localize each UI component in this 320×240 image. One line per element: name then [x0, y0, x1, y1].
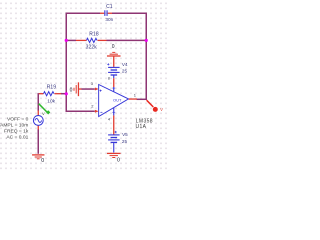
- wire output: [137, 98, 148, 100]
- svg-text:V: V: [160, 107, 163, 112]
- svg-text:AC = 0.01: AC = 0.01: [6, 134, 28, 140]
- svg-text:0: 0: [70, 87, 73, 93]
- voltage marker (red) at output node: [147, 100, 164, 112]
- wire R19 corner: [38, 93, 39, 95]
- voltage marker (green) at input node: [39, 104, 51, 116]
- wire source top: [37, 94, 39, 111]
- pin R19 left: [39, 93, 44, 95]
- junction at R19 right: [65, 92, 68, 95]
- wire pin3 to ground: [82, 88, 95, 90]
- junction at R18 right: [145, 39, 148, 42]
- wire R19 right to junction: [61, 93, 67, 95]
- ground 0 above V4 (flipped): [107, 52, 121, 56]
- pin C1 right: [108, 12, 112, 14]
- source V1 sine: [35, 118, 42, 122]
- svg-text:25: 25: [122, 68, 128, 73]
- battery V5 plates: [108, 135, 120, 143]
- pin V5 top: [113, 115, 115, 134]
- op-amp pin 2 arrowhead: [95, 110, 99, 113]
- ground 0 below V1: [32, 155, 44, 159]
- pin V1 bottom: [37, 125, 39, 130]
- wire R18 right: [107, 39, 148, 41]
- battery V5 bottom stem: [113, 142, 115, 152]
- svg-text:U1A: U1A: [136, 124, 147, 130]
- junction at R18 left: [65, 39, 68, 42]
- wire left feedback vertical: [65, 13, 67, 113]
- pin op-amp output: [128, 98, 137, 100]
- wire source bottom: [37, 129, 39, 154]
- svg-text:VAMPL = 10m: VAMPL = 10m: [0, 122, 28, 128]
- svg-text:0: 0: [41, 158, 44, 164]
- source V1 circle: [33, 116, 43, 126]
- op-amp V- pin tick: [112, 111, 115, 113]
- op-amp pin 3 arrowhead: [95, 88, 99, 91]
- pin V1 top: [37, 111, 39, 116]
- wire net segments: [38, 13, 148, 154]
- op-amp V+ pin stub: [113, 87, 115, 92]
- wire right vertical: [145, 13, 147, 101]
- wire R18 left: [66, 39, 77, 41]
- op-amp V+ pin tick: [112, 87, 115, 89]
- op-amp minus input mark: [100, 111, 102, 113]
- pin C1 left: [100, 12, 104, 14]
- pin V4 bottom: [113, 78, 115, 87]
- svg-text:30n: 30n: [105, 17, 113, 22]
- wire top feedback horizontal left: [66, 12, 101, 14]
- battery V4 plus mark: [107, 63, 109, 65]
- ground 0 below V5: [107, 153, 121, 157]
- pin R18 left: [76, 39, 87, 41]
- svg-text:25: 25: [122, 139, 128, 144]
- wire top feedback horizontal right: [112, 12, 147, 14]
- battery V4 plates: [108, 67, 120, 75]
- component pins (red): [38, 13, 137, 134]
- battery V5 plus mark: [115, 131, 117, 133]
- svg-text:FREQ = 1k: FREQ = 1k: [4, 128, 29, 134]
- svg-text:0: 0: [112, 44, 115, 50]
- source V1 attributes: [0, 116, 29, 140]
- svg-text:V: V: [42, 111, 45, 116]
- wire to op-amp pin 2: [66, 110, 95, 112]
- svg-text:322k: 322k: [86, 44, 98, 50]
- svg-text:8: 8: [108, 76, 110, 80]
- capacitor C1 plates: [105, 10, 107, 16]
- ground 0 at op-amp pin 3 (rotated): [74, 82, 78, 96]
- battery V4 bottom stub: [113, 75, 115, 78]
- resistor R19 zigzag: [44, 92, 54, 96]
- pin R19 right: [55, 93, 62, 95]
- svg-text:VOFF = 0: VOFF = 0: [7, 116, 29, 122]
- svg-text:R18: R18: [89, 31, 99, 37]
- pin R18 right: [98, 39, 107, 41]
- svg-text:10k: 10k: [47, 99, 55, 105]
- op-amp plus input mark: [100, 90, 102, 92]
- svg-text:V4: V4: [122, 62, 128, 67]
- op-amp V- pin stub: [113, 108, 115, 116]
- op-amp U1A triangle: [99, 85, 129, 117]
- svg-text:C1: C1: [106, 4, 113, 10]
- svg-text:0: 0: [117, 157, 120, 163]
- svg-text:V5: V5: [122, 132, 128, 137]
- pin ground-0 sideways stub: [79, 88, 82, 90]
- resistor R18 zigzag: [87, 38, 97, 42]
- svg-text:R19: R19: [47, 85, 57, 91]
- svg-text:OUT: OUT: [113, 97, 122, 102]
- pin V4 top stem: [113, 57, 115, 67]
